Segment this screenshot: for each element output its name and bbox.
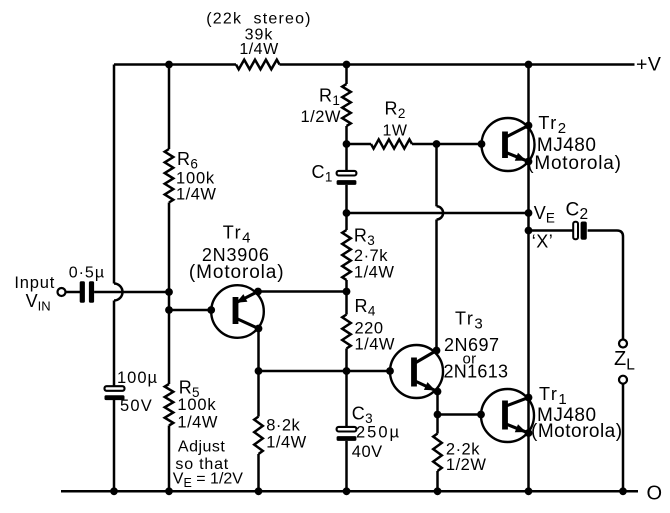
svg-text:R4: R4 — [355, 296, 376, 319]
svg-text:100k: 100k — [177, 396, 216, 414]
svg-text:+V: +V — [636, 54, 661, 76]
svg-text:(22k stereo): (22k stereo) — [206, 11, 311, 28]
svg-text:C2: C2 — [566, 200, 589, 224]
svg-text:0·5µ: 0·5µ — [69, 265, 105, 282]
svg-text:ZL: ZL — [614, 348, 635, 374]
svg-text:1/4W: 1/4W — [355, 336, 396, 354]
svg-text:1/2W: 1/2W — [300, 108, 341, 126]
svg-text:1/4W: 1/4W — [176, 186, 217, 204]
svg-text:1W: 1W — [383, 123, 408, 140]
svg-text:40V: 40V — [352, 443, 383, 461]
svg-text:R6: R6 — [177, 149, 198, 172]
svg-text:VE: VE — [534, 203, 555, 226]
svg-text:8·2k: 8·2k — [266, 417, 300, 435]
svg-text:(Motorola): (Motorola) — [189, 262, 285, 283]
svg-text:Input: Input — [14, 274, 55, 292]
svg-text:VE = 1/2V: VE = 1/2V — [173, 471, 243, 491]
svg-text:250µ: 250µ — [356, 424, 401, 442]
svg-text:‘X’: ‘X’ — [532, 232, 554, 252]
svg-text:100µ: 100µ — [117, 369, 158, 387]
svg-text:(Motorola): (Motorola) — [527, 153, 622, 174]
svg-text:50V: 50V — [120, 397, 153, 415]
svg-text:O: O — [646, 482, 662, 504]
svg-text:VIN: VIN — [26, 291, 51, 314]
svg-text:Adjust: Adjust — [178, 439, 226, 456]
svg-text:1/4W: 1/4W — [239, 41, 279, 58]
svg-text:R2: R2 — [385, 99, 406, 122]
svg-text:2N1613: 2N1613 — [444, 362, 509, 382]
svg-text:Tr2: Tr2 — [538, 113, 567, 137]
svg-text:1/4W: 1/4W — [266, 434, 307, 452]
svg-text:(Motorola): (Motorola) — [531, 421, 623, 442]
svg-text:C1: C1 — [312, 162, 333, 185]
svg-text:2·7k: 2·7k — [354, 247, 388, 265]
svg-text:R3: R3 — [354, 226, 375, 249]
svg-text:Tr4: Tr4 — [223, 223, 252, 247]
svg-text:1/2W: 1/2W — [446, 456, 487, 474]
svg-text:1/4W: 1/4W — [177, 414, 218, 432]
svg-text:1/4W: 1/4W — [354, 264, 395, 282]
svg-text:R1: R1 — [319, 86, 340, 109]
svg-text:Tr3: Tr3 — [455, 309, 484, 333]
